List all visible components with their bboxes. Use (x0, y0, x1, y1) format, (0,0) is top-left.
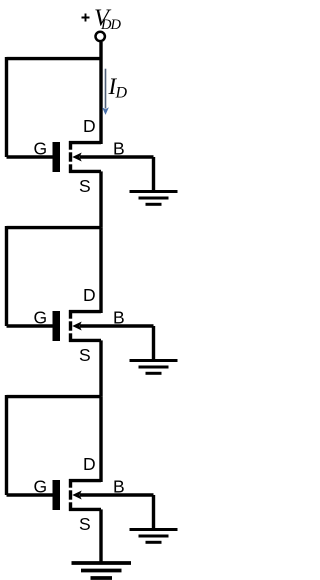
wire: VDD terminal to drain of M1 (99, 42, 102, 144)
node VDD label +V_DD (82, 5, 122, 34)
M2 gate bar (53, 311, 61, 341)
svg-text:DD: DD (100, 17, 121, 33)
svg-text:D: D (83, 454, 96, 474)
wire: box2 left rail down to gate level (5, 226, 8, 326)
M3 gate bar (53, 480, 61, 510)
svg-text:S: S (79, 514, 91, 534)
label I_D (108, 74, 128, 101)
svg-text:D: D (83, 116, 96, 136)
terminal VDD (open circle) (96, 32, 105, 41)
wire: node B to drain of M3 (99, 397, 102, 482)
M3 channel (dashed) (69, 479, 72, 511)
wire: box3 top horizontal (node B to M3 gate feedback) (7, 395, 102, 398)
ground (M3 body) (130, 530, 178, 543)
M3 source wire (69, 508, 101, 511)
wire: M1 body terminal (80, 155, 154, 158)
wire: M3 body to ground (152, 495, 155, 528)
wire: box2 top horizontal (node A to M2 gate feedback) (7, 226, 102, 229)
wire: M2 body to ground (152, 326, 155, 359)
wire: M2 body terminal (80, 324, 154, 327)
M1 source wire (69, 170, 101, 173)
wire: box3 left rail down to gate level (5, 395, 8, 495)
transistor M2 (7, 285, 154, 365)
ground (M3 source, main) (72, 563, 132, 578)
M2 drain wire (69, 310, 101, 313)
M2 source wire (69, 339, 101, 342)
svg-text:S: S (79, 345, 91, 365)
M1 body arrow (72, 153, 81, 162)
M1 gate wire (7, 155, 53, 158)
wire: node A to drain of M2 (99, 228, 102, 313)
M2 channel (dashed) (69, 310, 72, 342)
M3 body arrow (72, 491, 81, 500)
svg-text:S: S (79, 176, 91, 196)
current arrow I_D (blue) (102, 69, 109, 115)
M1 channel (dashed) (69, 141, 72, 173)
wire: box1 left rail down to gate level (5, 57, 8, 157)
transistor M3 (7, 454, 154, 534)
M2 gate wire (7, 324, 53, 327)
M2 body arrow (72, 322, 81, 331)
wire: M3 body terminal (80, 493, 154, 496)
M3 drain wire (69, 479, 101, 482)
wire: box1 top horizontal (M1 gate feedback to drain) (7, 57, 102, 60)
M1 drain wire (69, 141, 101, 144)
wire: M2 source down to node B (99, 340, 102, 396)
transistor M1 (7, 116, 154, 196)
wire: M1 source down to node A (99, 171, 102, 227)
wire: M3 source down to ground (99, 509, 102, 561)
ground (M2 body) (130, 361, 178, 374)
ground (M1 body) (130, 192, 178, 205)
M1 gate bar (53, 142, 61, 172)
svg-text:D: D (83, 285, 96, 305)
svg-text:D: D (115, 85, 128, 102)
wire: M1 body to ground (152, 157, 155, 190)
M3 gate wire (7, 493, 53, 496)
